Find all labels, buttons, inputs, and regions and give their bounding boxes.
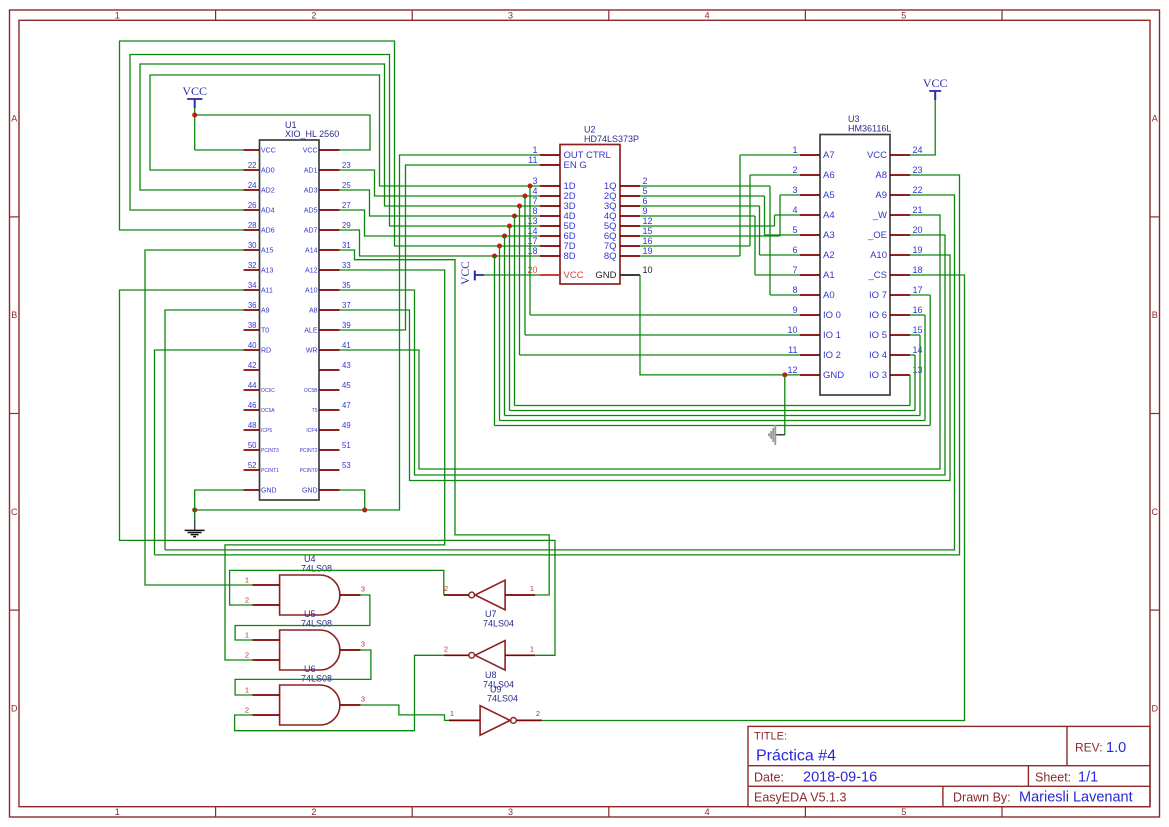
svg-text:1: 1 <box>115 807 120 817</box>
svg-text:9: 9 <box>792 305 797 315</box>
svg-text:2: 2 <box>792 165 797 175</box>
svg-text:2: 2 <box>444 584 448 593</box>
svg-text:PCINT2: PCINT2 <box>300 448 318 454</box>
svg-text:14: 14 <box>913 345 923 355</box>
svg-text:IO 1: IO 1 <box>823 330 841 341</box>
svg-text:74LS08: 74LS08 <box>301 619 332 629</box>
svg-text:PCINT3: PCINT3 <box>261 448 279 454</box>
svg-text:16: 16 <box>913 305 923 315</box>
svg-text:11: 11 <box>528 155 537 165</box>
svg-text:8Q: 8Q <box>604 251 617 262</box>
svg-text:OC5A: OC5A <box>261 408 275 414</box>
svg-text:A10: A10 <box>305 288 318 295</box>
svg-text:VCC: VCC <box>182 84 207 98</box>
svg-text:5: 5 <box>792 225 797 235</box>
svg-text:43: 43 <box>342 361 351 370</box>
svg-text:1/1: 1/1 <box>1078 770 1098 786</box>
svg-text:2: 2 <box>245 596 249 605</box>
svg-text:A2: A2 <box>823 250 835 261</box>
svg-text:12: 12 <box>787 365 797 375</box>
svg-text:EN G: EN G <box>564 160 587 171</box>
svg-text:A1: A1 <box>823 270 835 281</box>
svg-text:A8: A8 <box>309 308 318 315</box>
svg-text:1: 1 <box>530 584 534 593</box>
svg-text:IO 6: IO 6 <box>869 310 887 321</box>
svg-text:48: 48 <box>248 421 257 430</box>
svg-text:2: 2 <box>536 709 540 718</box>
svg-text:74LS08: 74LS08 <box>301 674 332 684</box>
svg-text:25: 25 <box>342 181 351 190</box>
svg-text:3: 3 <box>361 640 365 649</box>
svg-text:26: 26 <box>248 201 257 210</box>
svg-text:EasyEDA V5.1.3: EasyEDA V5.1.3 <box>754 791 846 805</box>
svg-text:36: 36 <box>248 301 257 310</box>
svg-text:VCC: VCC <box>303 148 318 155</box>
svg-text:11: 11 <box>788 345 797 355</box>
svg-text:17: 17 <box>913 285 923 295</box>
svg-text:GND: GND <box>595 270 616 281</box>
svg-text:U2: U2 <box>584 125 596 135</box>
svg-text:47: 47 <box>342 401 351 410</box>
svg-text:34: 34 <box>248 281 257 290</box>
svg-text:38: 38 <box>248 321 257 330</box>
svg-text:C: C <box>11 507 18 517</box>
svg-text:A8: A8 <box>875 170 887 181</box>
svg-text:24: 24 <box>913 145 923 155</box>
svg-text:3: 3 <box>508 10 513 20</box>
svg-text:VCC: VCC <box>923 76 948 90</box>
svg-text:A: A <box>11 114 17 124</box>
svg-text:1: 1 <box>532 145 537 155</box>
svg-text:41: 41 <box>342 341 351 350</box>
svg-text:A6: A6 <box>823 170 835 181</box>
svg-text:1: 1 <box>115 10 120 20</box>
svg-text:8: 8 <box>532 206 537 216</box>
svg-text:33: 33 <box>342 261 351 270</box>
svg-text:22: 22 <box>913 185 923 195</box>
svg-text:VCC: VCC <box>564 270 584 281</box>
svg-text:_CS: _CS <box>868 270 887 281</box>
svg-text:49: 49 <box>342 421 351 430</box>
svg-text:AD6: AD6 <box>261 228 275 235</box>
svg-text:50: 50 <box>248 441 257 450</box>
svg-text:1: 1 <box>245 631 249 640</box>
svg-text:1: 1 <box>530 644 534 653</box>
svg-text:B: B <box>11 310 17 320</box>
svg-text:4: 4 <box>532 186 537 196</box>
svg-text:REV:: REV: <box>1075 741 1103 755</box>
svg-text:39: 39 <box>342 321 351 330</box>
svg-text:ICP4: ICP4 <box>306 428 317 434</box>
svg-text:AD7: AD7 <box>304 228 318 235</box>
svg-text:OC5B: OC5B <box>304 388 318 394</box>
svg-text:IO 4: IO 4 <box>869 350 887 361</box>
svg-text:7: 7 <box>532 196 537 206</box>
svg-text:2: 2 <box>245 651 249 660</box>
svg-text:RD: RD <box>261 348 271 355</box>
svg-text:A4: A4 <box>823 210 835 221</box>
svg-text:74LS04: 74LS04 <box>483 619 514 629</box>
svg-text:2: 2 <box>643 176 648 186</box>
svg-text:U3: U3 <box>848 114 860 124</box>
svg-text:15: 15 <box>643 226 653 236</box>
svg-text:_W: _W <box>872 210 887 221</box>
svg-text:B: B <box>1152 310 1158 320</box>
svg-text:A14: A14 <box>305 248 318 255</box>
svg-text:Sheet:: Sheet: <box>1035 771 1071 785</box>
svg-text:8D: 8D <box>564 251 576 262</box>
svg-text:4: 4 <box>792 205 797 215</box>
svg-text:D: D <box>11 703 18 713</box>
svg-text:U5: U5 <box>304 609 316 619</box>
svg-text:1: 1 <box>792 145 797 155</box>
svg-text:GND: GND <box>302 488 318 495</box>
svg-text:53: 53 <box>342 461 351 470</box>
svg-text:TITLE:: TITLE: <box>754 731 787 743</box>
svg-text:5: 5 <box>901 807 906 817</box>
svg-text:3: 3 <box>532 176 537 186</box>
svg-text:GND: GND <box>261 488 277 495</box>
svg-text:46: 46 <box>248 401 257 410</box>
svg-text:12: 12 <box>643 216 653 226</box>
svg-text:ICP5: ICP5 <box>261 428 272 434</box>
svg-text:2: 2 <box>311 807 316 817</box>
svg-text:T5: T5 <box>312 408 318 414</box>
svg-text:7: 7 <box>792 265 797 275</box>
svg-text:8: 8 <box>792 285 797 295</box>
svg-text:AD1: AD1 <box>304 168 318 175</box>
svg-text:42: 42 <box>248 361 257 370</box>
svg-text:_OE: _OE <box>867 230 887 241</box>
svg-text:WR: WR <box>306 348 318 355</box>
svg-text:HD74LS373P: HD74LS373P <box>584 134 639 144</box>
svg-text:31: 31 <box>342 241 351 250</box>
svg-text:14: 14 <box>527 226 537 236</box>
svg-text:10: 10 <box>787 325 797 335</box>
svg-text:AD4: AD4 <box>261 208 275 215</box>
svg-text:16: 16 <box>643 236 653 246</box>
svg-text:51: 51 <box>342 441 351 450</box>
svg-text:6: 6 <box>643 196 648 206</box>
svg-text:4: 4 <box>705 10 710 20</box>
svg-text:A0: A0 <box>823 290 835 301</box>
svg-text:20: 20 <box>527 265 537 275</box>
svg-text:30: 30 <box>248 241 257 250</box>
svg-text:IO 3: IO 3 <box>869 370 887 381</box>
svg-text:VCC: VCC <box>261 148 276 155</box>
svg-text:A10: A10 <box>870 250 887 261</box>
svg-text:Drawn By:: Drawn By: <box>953 791 1011 805</box>
svg-text:U8: U8 <box>485 670 497 680</box>
svg-text:3: 3 <box>508 807 513 817</box>
svg-text:74LS08: 74LS08 <box>301 564 332 574</box>
svg-text:A13: A13 <box>261 268 274 275</box>
svg-text:A11: A11 <box>261 288 273 295</box>
svg-text:GND: GND <box>823 370 844 381</box>
svg-text:2: 2 <box>311 10 316 20</box>
svg-text:9: 9 <box>643 206 648 216</box>
svg-text:1: 1 <box>245 686 249 695</box>
svg-text:2018-09-16: 2018-09-16 <box>803 770 877 786</box>
svg-text:AD5: AD5 <box>304 208 318 215</box>
svg-text:Práctica #4: Práctica #4 <box>756 748 836 765</box>
svg-text:VCC: VCC <box>460 261 472 285</box>
svg-text:24: 24 <box>248 181 257 190</box>
svg-text:A12: A12 <box>305 268 318 275</box>
svg-text:D: D <box>1151 703 1158 713</box>
svg-text:U6: U6 <box>304 664 316 674</box>
svg-text:IO 2: IO 2 <box>823 350 841 361</box>
svg-text:OC5C: OC5C <box>261 388 275 394</box>
svg-text:44: 44 <box>248 381 257 390</box>
svg-text:17: 17 <box>527 236 537 246</box>
svg-text:PCINT1: PCINT1 <box>261 468 279 474</box>
svg-text:AD0: AD0 <box>261 168 275 175</box>
svg-text:A7: A7 <box>823 150 835 161</box>
svg-text:45: 45 <box>342 381 351 390</box>
svg-text:32: 32 <box>248 261 257 270</box>
svg-text:AD3: AD3 <box>304 188 318 195</box>
svg-text:1.0: 1.0 <box>1106 740 1126 756</box>
svg-text:19: 19 <box>913 245 923 255</box>
svg-text:A5: A5 <box>823 190 835 201</box>
svg-text:37: 37 <box>342 301 351 310</box>
svg-text:18: 18 <box>527 246 537 256</box>
svg-text:1: 1 <box>245 576 249 585</box>
svg-text:AD2: AD2 <box>261 188 275 195</box>
svg-text:28: 28 <box>248 221 257 230</box>
svg-text:2: 2 <box>444 644 448 653</box>
svg-text:23: 23 <box>913 165 923 175</box>
svg-text:IO 5: IO 5 <box>869 330 887 341</box>
svg-text:A: A <box>1152 114 1158 124</box>
svg-text:27: 27 <box>342 201 351 210</box>
svg-text:29: 29 <box>342 221 351 230</box>
svg-text:35: 35 <box>342 281 351 290</box>
svg-text:T0: T0 <box>261 328 269 335</box>
svg-text:23: 23 <box>342 161 351 170</box>
svg-text:20: 20 <box>913 225 923 235</box>
svg-text:18: 18 <box>913 265 923 275</box>
svg-text:C: C <box>1151 507 1158 517</box>
svg-text:A9: A9 <box>261 308 270 315</box>
svg-text:13: 13 <box>913 365 923 375</box>
svg-text:1: 1 <box>450 709 454 718</box>
svg-text:10: 10 <box>643 265 653 275</box>
svg-text:3: 3 <box>361 585 365 594</box>
svg-text:HM36116L: HM36116L <box>848 124 891 134</box>
svg-text:VCC: VCC <box>867 150 887 161</box>
svg-text:6: 6 <box>792 245 797 255</box>
svg-text:2: 2 <box>245 706 249 715</box>
svg-text:4: 4 <box>705 807 710 817</box>
svg-text:IO 7: IO 7 <box>869 290 887 301</box>
svg-text:A15: A15 <box>261 248 274 255</box>
svg-text:U7: U7 <box>485 609 497 619</box>
svg-text:40: 40 <box>248 341 257 350</box>
svg-text:52: 52 <box>248 461 257 470</box>
svg-text:XIO_HL 2560: XIO_HL 2560 <box>285 129 339 139</box>
svg-text:3: 3 <box>792 185 797 195</box>
svg-text:15: 15 <box>913 325 923 335</box>
svg-text:74LS04: 74LS04 <box>487 694 518 704</box>
svg-text:Mariesli Lavenant: Mariesli Lavenant <box>1019 790 1133 806</box>
svg-text:ALE: ALE <box>304 328 318 335</box>
svg-text:5: 5 <box>643 186 648 196</box>
svg-text:IO 0: IO 0 <box>823 310 841 321</box>
svg-text:19: 19 <box>643 246 653 256</box>
svg-text:A3: A3 <box>823 230 835 241</box>
svg-text:A9: A9 <box>875 190 887 201</box>
svg-text:21: 21 <box>913 205 923 215</box>
svg-text:22: 22 <box>248 161 257 170</box>
svg-text:Date:: Date: <box>754 771 784 785</box>
svg-text:PCINT0: PCINT0 <box>300 468 318 474</box>
svg-text:5: 5 <box>901 10 906 20</box>
svg-text:3: 3 <box>361 695 365 704</box>
svg-text:13: 13 <box>527 216 537 226</box>
